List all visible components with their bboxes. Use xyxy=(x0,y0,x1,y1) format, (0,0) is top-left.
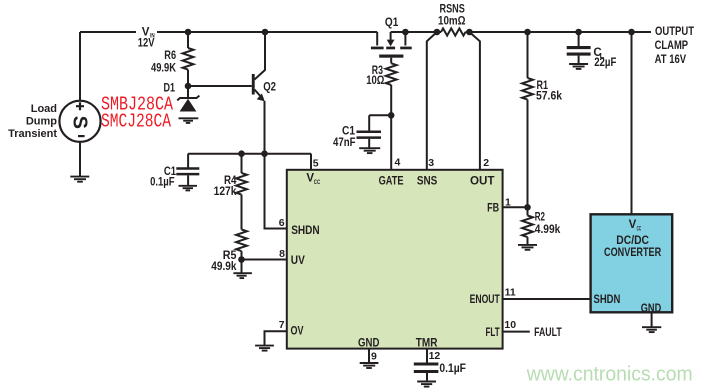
svg-text:0.1µF: 0.1µF xyxy=(439,363,466,375)
svg-text:OV: OV xyxy=(291,326,304,338)
svg-text:57.6k: 57.6k xyxy=(536,90,563,102)
svg-text:5: 5 xyxy=(313,157,319,169)
svg-text:0.1µF: 0.1µF xyxy=(150,177,175,189)
svg-text:3: 3 xyxy=(428,157,434,169)
svg-text:S: S xyxy=(69,116,91,129)
svg-text:47nF: 47nF xyxy=(333,137,356,149)
svg-text:GND: GND xyxy=(641,303,661,315)
svg-text:www.cntronics.com: www.cntronics.com xyxy=(526,363,693,386)
svg-text:R2: R2 xyxy=(535,212,545,224)
svg-text:FB: FB xyxy=(487,203,499,215)
svg-text:GATE: GATE xyxy=(379,175,404,187)
svg-text:R6: R6 xyxy=(164,50,176,62)
svg-text:8: 8 xyxy=(279,248,285,260)
svg-text:12V: 12V xyxy=(138,37,155,49)
svg-text:12: 12 xyxy=(429,350,441,362)
svg-text:SHDN: SHDN xyxy=(594,294,621,306)
svg-text:6: 6 xyxy=(279,217,285,229)
svg-text:Q1: Q1 xyxy=(385,17,399,29)
svg-text:1: 1 xyxy=(505,196,511,208)
svg-text:SMCJ28CA: SMCJ28CA xyxy=(101,111,171,133)
svg-text:22µF: 22µF xyxy=(594,57,616,69)
svg-text:10Ω: 10Ω xyxy=(366,75,384,87)
svg-text:2: 2 xyxy=(483,157,489,169)
svg-text:CC: CC xyxy=(637,226,642,233)
svg-text:GND: GND xyxy=(358,338,379,350)
svg-text:DC/DC: DC/DC xyxy=(616,235,649,247)
svg-text:FLT: FLT xyxy=(486,327,500,339)
svg-text:CC: CC xyxy=(314,179,320,186)
svg-text:V: V xyxy=(629,219,637,231)
svg-text:4.99k: 4.99k xyxy=(535,224,561,236)
svg-text:UV: UV xyxy=(291,255,305,267)
svg-text:ENOUT: ENOUT xyxy=(470,294,500,306)
svg-text:SHDN: SHDN xyxy=(291,225,320,237)
svg-text:49.9k: 49.9k xyxy=(211,261,237,273)
svg-text:AT 16V: AT 16V xyxy=(655,54,687,66)
svg-text:RSNS: RSNS xyxy=(440,3,466,15)
svg-text:OUT: OUT xyxy=(470,175,495,187)
svg-text:9: 9 xyxy=(371,350,377,362)
svg-text:CONVERTER: CONVERTER xyxy=(604,247,662,259)
svg-text:4: 4 xyxy=(395,156,401,168)
svg-text:Dump: Dump xyxy=(26,115,57,127)
svg-text:SNS: SNS xyxy=(417,175,438,187)
svg-text:C1: C1 xyxy=(342,126,356,138)
svg-text:10mΩ: 10mΩ xyxy=(438,15,466,27)
svg-text:Transient: Transient xyxy=(8,128,57,140)
svg-text:10: 10 xyxy=(504,319,516,331)
svg-text:127k: 127k xyxy=(214,186,237,198)
svg-text:R4: R4 xyxy=(224,175,237,187)
svg-text:11: 11 xyxy=(505,287,516,299)
svg-text:Load: Load xyxy=(31,103,57,115)
svg-text:CLAMP: CLAMP xyxy=(655,40,689,52)
svg-text:FAULT: FAULT xyxy=(534,327,562,339)
svg-text:7: 7 xyxy=(279,319,285,331)
svg-text:OUTPUT: OUTPUT xyxy=(655,26,694,38)
svg-text:49.9K: 49.9K xyxy=(151,63,177,75)
svg-text:Q2: Q2 xyxy=(263,82,276,94)
svg-text:TMR: TMR xyxy=(416,338,438,350)
